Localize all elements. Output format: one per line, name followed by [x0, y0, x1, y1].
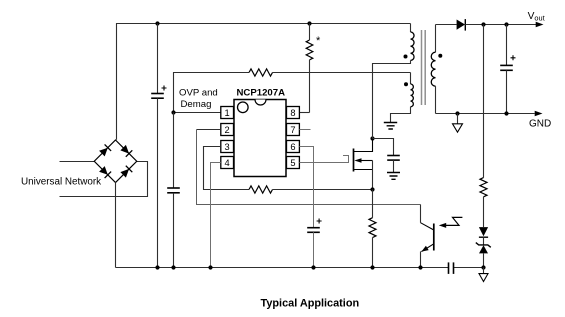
transistor Q1 (power MOSFET) channel bar	[353, 149, 355, 172]
pin 3 box of U1	[221, 141, 234, 153]
bridge rectifier diamond	[94, 140, 137, 183]
wire: bottom ground rail	[116, 267, 449, 269]
svg-text:*: *	[316, 35, 321, 47]
label: + of C1	[162, 86, 167, 91]
wire: pin 3 CS to sense filter	[204, 147, 250, 190]
wire: aux bottom to earth ground	[391, 107, 411, 123]
ground (aux winding earth)	[384, 123, 397, 130]
svg-text:OVP and: OVP and	[179, 87, 218, 98]
node: primary phase dot	[404, 55, 408, 59]
transformer T1 secondary winding	[435, 25, 437, 53]
Vout terminal arrow	[536, 22, 544, 28]
node: C5 / GND wire	[504, 111, 508, 115]
transformer T1 primary winding	[410, 24, 412, 33]
resistor R4 (current sense resistor)	[372, 190, 374, 218]
node: secondary phase dot	[438, 54, 442, 58]
diode D1 (bridge left-top edge)	[99, 144, 111, 156]
node: pin1 / OVP cap junction	[171, 110, 175, 114]
transformer T1 core	[421, 30, 423, 105]
node: zener / secondary ground	[481, 265, 485, 269]
pin 8 box of U1	[287, 107, 300, 119]
diode D2 (bridge top-right edge)	[120, 145, 132, 157]
pin 4 box of U1	[221, 157, 234, 169]
wire: top rail (bridge + output to transformer primary)	[117, 24, 411, 140]
node: C3 / ground rail	[311, 265, 315, 269]
svg-text:Universal Network: Universal Network	[21, 176, 101, 187]
wire: pin 7 NC stub	[299, 129, 310, 131]
svg-text:6: 6	[290, 142, 295, 152]
wire: pin 2 FB stub	[197, 129, 221, 131]
label: + of C5	[511, 55, 516, 60]
wire: drain node to clamp cap C4	[373, 139, 394, 156]
wire: Vout sense down to divider	[483, 25, 485, 178]
wire: pin 1 to OVP branch	[174, 112, 221, 114]
node: pin 4 / ground rail	[208, 265, 212, 269]
IC U1 pin 1 indicator	[238, 102, 249, 113]
svg-text:GND: GND	[529, 118, 551, 129]
pin 1 box of U1	[221, 107, 234, 119]
optocoupler light arrow	[444, 217, 463, 225]
svg-text:out: out	[534, 14, 544, 23]
capacitor C2 (OVP/demag cap)	[173, 113, 175, 189]
svg-text:8: 8	[290, 108, 295, 118]
label: + of C3	[317, 219, 322, 224]
transistor U2 (optocoupler phototransistor) bar	[433, 224, 435, 251]
capacitor C4 (drain clamp)	[387, 155, 400, 157]
svg-text:NCP1207A: NCP1207A	[237, 88, 286, 99]
node: Vout sense tap	[481, 22, 485, 26]
IC U1 NCP1207A body	[234, 100, 286, 177]
svg-text:1: 1	[225, 108, 230, 118]
wire: R3 to Q1 source node	[273, 189, 373, 191]
wire: output ground return	[436, 113, 535, 115]
capacitor C3 (VCC cap)	[307, 227, 320, 229]
wire: secondary top to output diode	[436, 24, 457, 26]
pin 7 box of U1	[287, 124, 300, 136]
wire: pin 5 Drv to Q1 gate	[299, 156, 348, 163]
wire: optocoupler collector drop	[420, 205, 422, 223]
diode D7 (zener reference)	[476, 243, 491, 248]
diode D5 (output rectifier)	[457, 20, 465, 30]
Q1 body lead with arrow	[361, 160, 373, 162]
pin 2 box of U1	[221, 124, 234, 136]
transformer T1 auxiliary winding	[410, 73, 412, 85]
node: rail / startup resistor junction	[307, 21, 311, 25]
ground (secondary ground triangle near transformer)	[457, 114, 459, 124]
diode D6 (optocoupler LED)	[479, 227, 488, 236]
wire: FB run to optocoupler	[197, 130, 421, 205]
capacitor C1 (bulk filter cap)	[157, 24, 159, 94]
svg-text:4: 4	[225, 158, 230, 168]
wire: R2 to pin 8	[299, 112, 309, 114]
diode D4 (bridge bottom-right edge)	[120, 166, 132, 178]
wire: AC line 2 to bridge right vertex	[60, 162, 148, 197]
svg-text:Demag: Demag	[181, 99, 212, 110]
capacitor C6 (primary-to-secondary Y cap)	[448, 262, 450, 274]
svg-text:3: 3	[225, 142, 230, 152]
Q1 source lead	[354, 169, 373, 171]
capacitor C5 (output filter cap)	[506, 25, 508, 66]
node: secondary ground tap	[455, 111, 459, 115]
node: R4 / ground rail	[370, 265, 374, 269]
svg-text:Typical Application: Typical Application	[261, 297, 360, 309]
wire: AC line 1 to bridge left vertex	[60, 161, 95, 163]
wire: pin 4 GND to ground rail	[211, 163, 221, 268]
node: C2 / ground rail	[171, 265, 175, 269]
node: auxiliary phase dot	[404, 82, 408, 86]
wire: D5 to Vout arrow	[465, 24, 536, 26]
ground (clamp cap earth)	[387, 173, 400, 180]
node: rail / bulk cap junction	[155, 21, 159, 25]
svg-text:2: 2	[225, 125, 230, 135]
svg-text:5: 5	[290, 158, 295, 168]
GND terminal arrow	[535, 111, 543, 117]
wire: demag sense wire (aux winding to R1 to pin1 branch)	[174, 73, 250, 113]
resistor R2 (HV startup resistor, optional)	[309, 24, 311, 41]
node: drain node (primary/clamp/Q1)	[370, 136, 374, 140]
resistor R5 (feedback series resistor)	[480, 178, 487, 197]
node: Q1 source / sense resistor junction	[370, 187, 374, 191]
wire: primary bottom to drain node	[373, 60, 411, 138]
pin 5 box of U1	[287, 157, 300, 169]
node: U2 emitter / ground rail	[418, 265, 422, 269]
ground (secondary ground triangle bottom right)	[483, 268, 485, 274]
Q1 drain lead	[354, 139, 373, 152]
svg-text:7: 7	[290, 125, 295, 135]
diode D3 (bridge left-bottom edge)	[99, 166, 111, 178]
U2 collector lead	[421, 223, 434, 230]
U2 emitter lead with arrow	[421, 244, 433, 252]
wire: ground rail right of Y-cap	[454, 267, 484, 269]
resistor R3 (CS filter resistor)	[249, 186, 272, 193]
node: output cap junction	[504, 22, 508, 26]
node: C1 / ground rail	[155, 265, 159, 269]
wire: pin 6 VCC to supply cap	[299, 147, 313, 228]
IC U1 top notch	[255, 100, 266, 106]
pin 6 box of U1	[287, 141, 300, 153]
resistor R1 (demag series resistor)	[249, 69, 272, 76]
wire: bridge - output down to ground rail	[115, 182, 117, 267]
